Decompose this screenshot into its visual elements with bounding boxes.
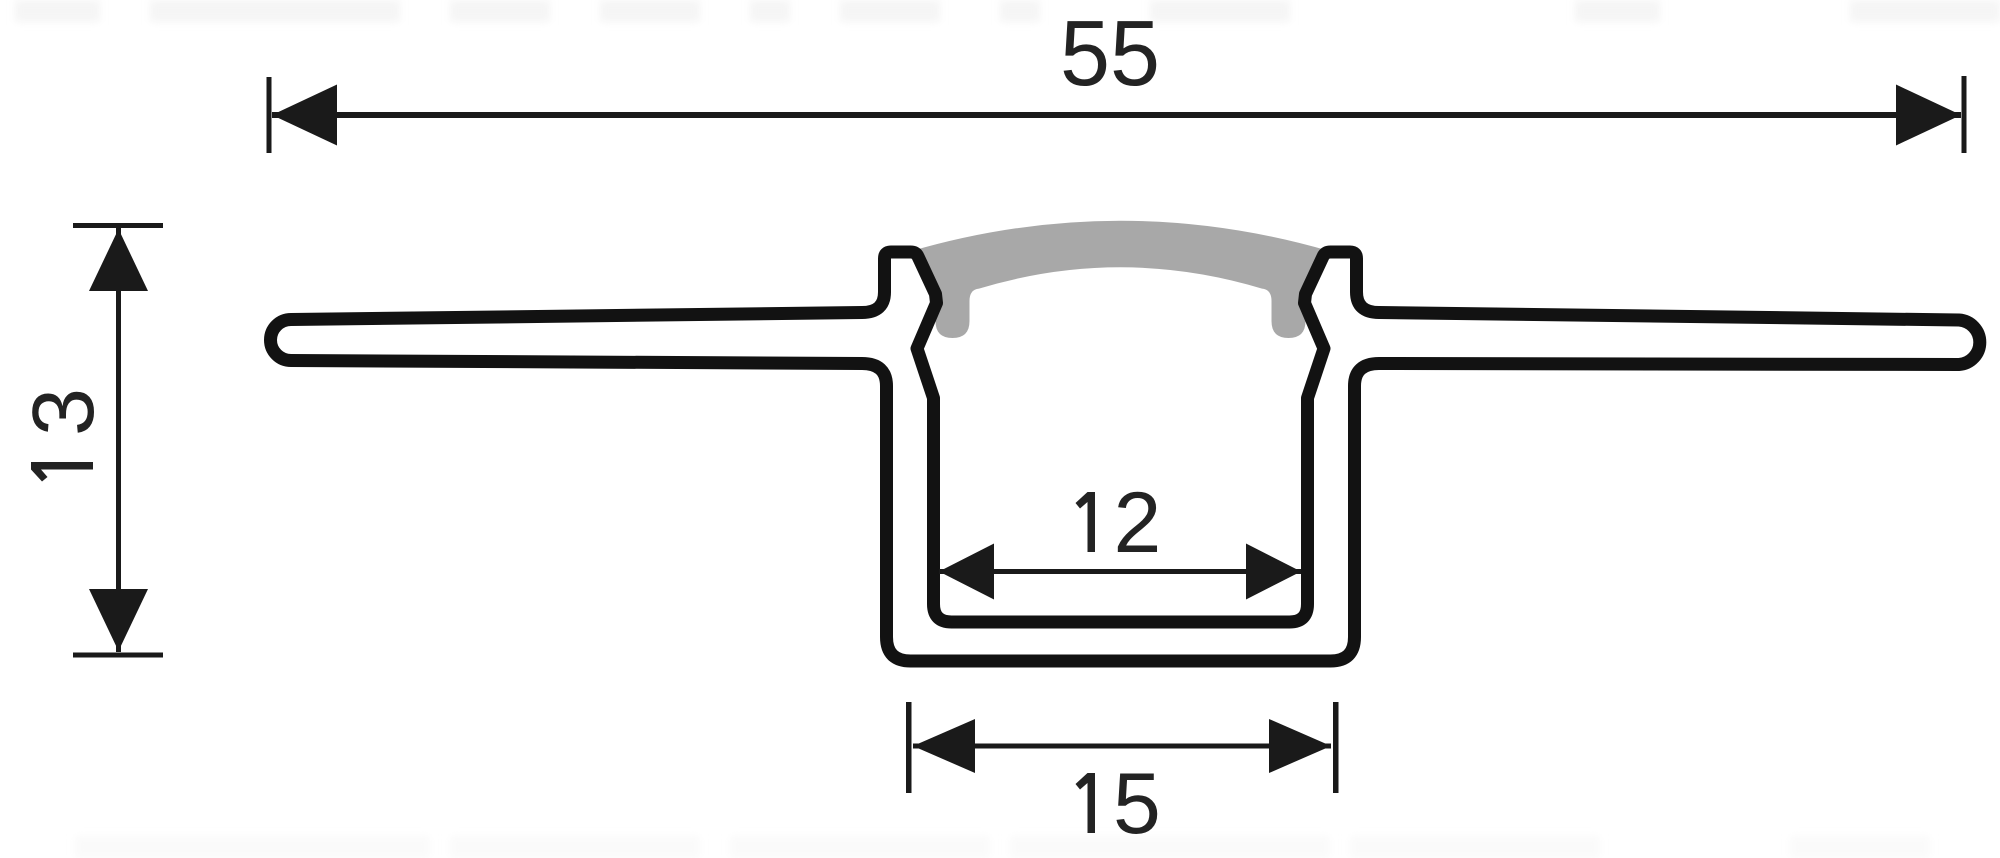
right arrowhead [1896, 85, 1961, 146]
bottom extension tick [73, 653, 163, 658]
svg-text:5: 5 [1113, 756, 1161, 852]
watermark band bottom [75, 836, 1930, 858]
right arrowhead [1246, 544, 1301, 600]
dimension 13 (overall height) [73, 223, 163, 658]
dimension line [116, 228, 121, 652]
svg-text:2: 2 [1114, 475, 1162, 571]
up arrowhead [89, 229, 148, 291]
right extension tick [1333, 702, 1339, 793]
value label 12 [1076, 492, 1096, 552]
left extension tick [906, 702, 912, 793]
dimension 55 (overall width) [267, 76, 1967, 153]
aluminium profile cross-section outline (wings, clip lips, U-channel) [271, 252, 1980, 661]
top extension tick [73, 223, 163, 228]
value label 13 (rotated) [15, 388, 112, 482]
svg-text:3: 3 [15, 388, 112, 436]
dimension line [913, 744, 1331, 749]
right extension tick [1962, 76, 1967, 153]
svg-text:55: 55 [1060, 1, 1160, 105]
left extension tick [267, 77, 272, 153]
right arrowhead [1269, 719, 1331, 773]
watermark band top [15, 0, 2000, 22]
left arrowhead [272, 85, 337, 146]
left arrowhead [913, 719, 975, 773]
down arrowhead [89, 589, 148, 651]
diffuser cover (gray arched lens with clip feet) [910, 221, 1331, 338]
value label 15 [1076, 773, 1096, 833]
left arrowhead [939, 544, 994, 600]
dimension line [939, 569, 1301, 574]
dimension line [272, 112, 1961, 118]
dimension 15 (outer channel width) [906, 702, 1339, 793]
dimension 12 (inner channel width) [939, 544, 1301, 600]
